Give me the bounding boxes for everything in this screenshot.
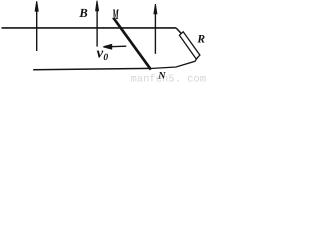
svg-text:manfen5. com: manfen5. com [131,73,207,83]
field arrow 3 shaft [154,12,156,54]
rod MN [114,18,151,70]
resistor R box [179,32,200,59]
wire top rail bend to resistor [176,28,181,34]
field arrow 2 head [95,1,99,12]
field arrow 1 head [35,1,39,12]
svg-text:0: 0 [103,53,108,63]
bottom rail [33,68,150,69]
field arrow 3 head [153,4,157,14]
svg-text:B: B [78,6,87,20]
svg-text:N: N [157,71,166,82]
field arrow 1 shaft [36,9,38,51]
svg-text:R: R [196,33,205,45]
field arrow 2 shaft [96,8,98,47]
velocity arrow v0 head [103,44,112,50]
velocity arrow v0 shaft [111,45,127,48]
top rail [2,27,177,29]
wire bottom-right to resistor [151,58,198,69]
